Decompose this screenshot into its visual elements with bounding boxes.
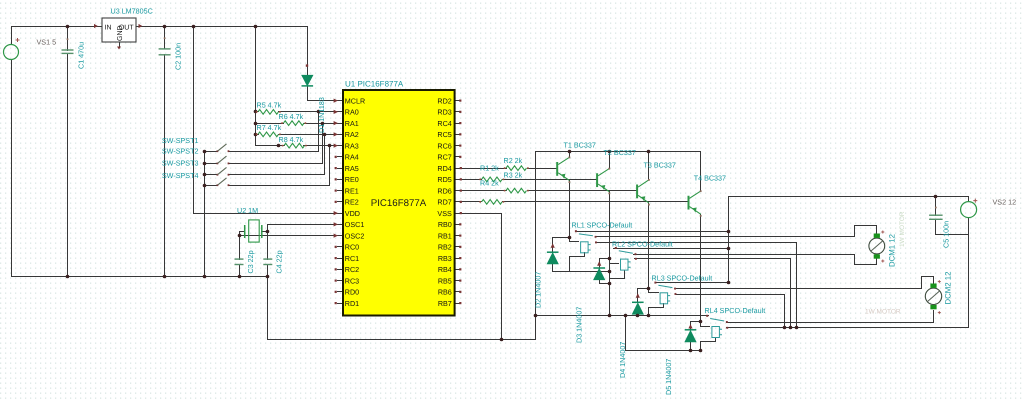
svg-text:PIC16F877A: PIC16F877A <box>371 198 427 209</box>
svg-text:D4 1N4007: D4 1N4007 <box>618 342 627 378</box>
svg-text:RE0: RE0 <box>345 175 359 184</box>
svg-text:R4 2k: R4 2k <box>480 179 499 188</box>
svg-text:RB7: RB7 <box>438 299 452 308</box>
svg-text:RD7: RD7 <box>437 198 451 207</box>
svg-text:D2 1N4007: D2 1N4007 <box>534 272 543 308</box>
svg-text:SW-SPST3: SW-SPST3 <box>162 158 199 167</box>
svg-text:U3 LM7805C: U3 LM7805C <box>111 7 153 16</box>
svg-text:RL2 SPCO-Default: RL2 SPCO-Default <box>612 240 673 249</box>
svg-text:RD1: RD1 <box>345 299 359 308</box>
svg-text:VDD: VDD <box>345 209 360 218</box>
svg-text:RB1: RB1 <box>438 231 452 240</box>
svg-text:C4 22p: C4 22p <box>275 250 284 273</box>
svg-text:D3 1N4007: D3 1N4007 <box>575 307 584 343</box>
svg-text:GND: GND <box>117 25 124 41</box>
svg-text:RC6: RC6 <box>437 141 451 150</box>
svg-text:RC4: RC4 <box>437 119 451 128</box>
svg-text:VSS: VSS <box>437 209 452 218</box>
svg-text:R2 2k: R2 2k <box>504 156 523 165</box>
svg-text:RD2: RD2 <box>437 96 451 105</box>
svg-text:T3 BC337: T3 BC337 <box>644 161 676 170</box>
svg-text:R1 2k: R1 2k <box>480 164 499 173</box>
svg-text:RB2: RB2 <box>438 243 452 252</box>
svg-text:RC2: RC2 <box>345 265 359 274</box>
svg-text:SW-SPST1: SW-SPST1 <box>162 136 199 145</box>
svg-text:RB0: RB0 <box>438 220 452 229</box>
svg-text:R6 4.7k: R6 4.7k <box>279 112 304 121</box>
svg-text:RA2: RA2 <box>345 130 359 139</box>
svg-text:DCM1 12: DCM1 12 <box>888 234 897 267</box>
svg-text:DCM2 12: DCM2 12 <box>944 272 953 305</box>
svg-text:RD6: RD6 <box>437 186 451 195</box>
svg-text:1W MOTOR: 1W MOTOR <box>865 309 901 316</box>
svg-text:T1 BC337: T1 BC337 <box>564 141 596 150</box>
svg-text:MCLR: MCLR <box>345 96 365 105</box>
svg-text:T2 BC337: T2 BC337 <box>604 148 636 157</box>
svg-text:R7 4.7k: R7 4.7k <box>257 123 282 132</box>
svg-text:OSC1: OSC1 <box>345 220 365 229</box>
svg-text:VS1 5: VS1 5 <box>37 38 57 47</box>
svg-text:SW-SPST4: SW-SPST4 <box>162 171 199 180</box>
svg-text:D1 1N1183: D1 1N1183 <box>317 97 326 133</box>
svg-text:VS2 12: VS2 12 <box>993 198 1017 207</box>
svg-text:C1 470u: C1 470u <box>77 42 86 69</box>
svg-text:RB6: RB6 <box>438 288 452 297</box>
svg-text:C3 22p: C3 22p <box>246 250 255 273</box>
svg-text:U2 1M: U2 1M <box>237 206 258 215</box>
svg-text:RC3: RC3 <box>345 276 359 285</box>
svg-text:RA0: RA0 <box>345 108 359 117</box>
svg-text:RC0: RC0 <box>345 243 359 252</box>
svg-text:RA3: RA3 <box>345 141 359 150</box>
svg-text:T4 BC337: T4 BC337 <box>694 174 726 183</box>
svg-text:IN: IN <box>105 24 112 31</box>
svg-text:RA4: RA4 <box>345 153 359 162</box>
svg-text:RA5: RA5 <box>345 164 359 173</box>
svg-text:RD0: RD0 <box>345 288 359 297</box>
svg-text:R5 4.7k: R5 4.7k <box>257 101 282 110</box>
svg-text:RC7: RC7 <box>437 153 451 162</box>
svg-text:U1 PIC16F877A: U1 PIC16F877A <box>345 80 404 89</box>
svg-text:RD4: RD4 <box>437 164 451 173</box>
svg-text:RB4: RB4 <box>438 265 452 274</box>
svg-text:C5 100n: C5 100n <box>942 221 951 248</box>
svg-text:D5 1N4007: D5 1N4007 <box>664 359 673 395</box>
svg-text:RD5: RD5 <box>437 175 451 184</box>
svg-text:OSC2: OSC2 <box>345 231 365 240</box>
svg-text:RA1: RA1 <box>345 119 359 128</box>
svg-text:RD3: RD3 <box>437 108 451 117</box>
svg-text:RL4 SPCO-Default: RL4 SPCO-Default <box>705 306 766 315</box>
svg-text:RE1: RE1 <box>345 186 359 195</box>
svg-text:RE2: RE2 <box>345 198 359 207</box>
svg-text:R3 2k: R3 2k <box>504 171 523 180</box>
svg-text:RB5: RB5 <box>438 276 452 285</box>
svg-text:RL3 SPCO-Default: RL3 SPCO-Default <box>652 274 713 283</box>
svg-text:RC1: RC1 <box>345 254 359 263</box>
svg-text:SW-SPST2: SW-SPST2 <box>162 146 199 155</box>
svg-text:RC5: RC5 <box>437 130 451 139</box>
svg-text:R8 4.7k: R8 4.7k <box>279 135 304 144</box>
svg-text:1W MOTOR: 1W MOTOR <box>899 211 906 247</box>
svg-text:C2 100n: C2 100n <box>174 43 183 70</box>
svg-text:RB3: RB3 <box>438 254 452 263</box>
svg-text:RL1 SPCO-Default: RL1 SPCO-Default <box>572 221 633 230</box>
